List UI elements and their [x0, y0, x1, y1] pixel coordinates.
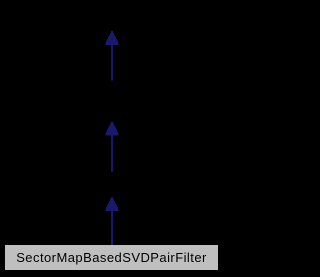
class node SectorMapBasedSVDPairFilter — [5, 245, 218, 270]
arrow 3 (bottom inheritance edge) — [106, 197, 119, 245]
arrow 1 (top inheritance edge) — [106, 31, 119, 81]
inheritance arrows (midnightblue, stepped heads) — [0, 0, 224, 277]
arrow 2 (middle inheritance edge) — [106, 122, 119, 172]
